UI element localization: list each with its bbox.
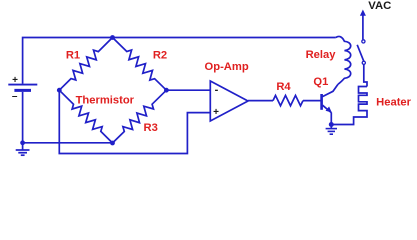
wire top rail from battery+ to relay coil — [23, 38, 336, 84]
node bridge bottom — [110, 141, 115, 146]
heater RH — [334, 87, 412, 125]
svg-text:Relay: Relay — [306, 49, 337, 61]
svg-text:R3: R3 — [144, 122, 158, 134]
ground GND2 — [326, 125, 337, 135]
svg-text:+: + — [213, 107, 219, 118]
resistor R3 (bridge bottom-right arm) — [113, 90, 167, 143]
svg-text:Op-Amp: Op-Amp — [205, 61, 249, 73]
resistor R1 (bridge top-left arm) — [59, 38, 112, 91]
wire switch to heater — [364, 65, 367, 87]
svg-text:Heater: Heater — [376, 97, 411, 109]
resistor R2 (bridge top-right arm) — [113, 38, 167, 91]
svg-text:–: – — [12, 91, 18, 102]
node bridge right — [164, 88, 169, 93]
op-amp U1 — [205, 61, 249, 121]
transistor Q1 — [313, 76, 338, 112]
svg-text:R4: R4 — [276, 81, 291, 93]
ground GND1 — [16, 143, 30, 155]
node battery ground junction — [20, 140, 25, 145]
resistor R4 — [273, 95, 303, 105]
node emitter junction — [329, 122, 334, 127]
thermistor RT (bridge bottom-left arm) — [59, 90, 112, 143]
svg-text:Q1: Q1 — [313, 76, 328, 88]
relay switch contact — [357, 40, 365, 65]
relay coil K1 — [306, 36, 351, 84]
svg-text:Thermistor: Thermistor — [76, 95, 135, 107]
wire bridge left node down, across bottom, up to op-amp + input — [59, 90, 210, 153]
wire battery- to bridge bottom node — [23, 142, 113, 144]
svg-text:+: + — [12, 75, 18, 86]
battery B1 — [8, 75, 37, 102]
wire Q1 emitter down to junction — [330, 113, 332, 125]
wire op-amp output to R4 — [248, 100, 273, 102]
wire bridge right node to op-amp - input — [166, 89, 210, 91]
svg-text:VAC: VAC — [368, 0, 391, 12]
node bridge top — [110, 35, 115, 40]
svg-text:R2: R2 — [153, 50, 167, 62]
svg-text:R1: R1 — [66, 50, 80, 62]
svg-text:-: - — [215, 84, 219, 96]
node bridge left — [57, 88, 62, 93]
wire battery- down to ground junction — [22, 92, 24, 143]
VAC arrow — [360, 0, 391, 39]
wire R4 to Q1 base — [303, 100, 321, 102]
